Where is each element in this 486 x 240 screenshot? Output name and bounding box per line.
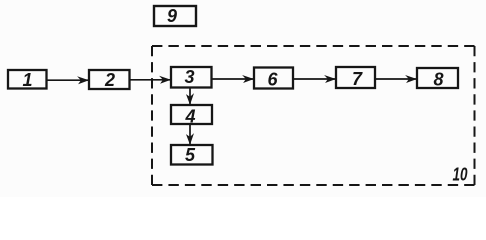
svg-text:1: 1 — [22, 70, 32, 90]
arrow 2 to 3 — [130, 79, 171, 81]
block 2 — [89, 70, 130, 90]
block 5 — [171, 145, 213, 165]
svg-text:5: 5 — [185, 145, 196, 165]
block 7 — [336, 67, 375, 89]
dashed enclosure 10 right edge — [474, 46, 476, 185]
arrow 3 to 6 — [212, 78, 254, 80]
svg-text:2: 2 — [104, 70, 115, 90]
arrow 3 down to 4 — [189, 88, 191, 105]
block 8 — [417, 68, 458, 90]
arrow 4 down to 5 — [189, 124, 191, 145]
svg-text:7: 7 — [352, 69, 363, 89]
dashed enclosure 10 bottom edge — [152, 184, 475, 186]
block 1 — [8, 70, 47, 90]
block 3 — [171, 67, 212, 88]
block 6 — [254, 68, 293, 90]
arrow 7 to 8 — [375, 78, 417, 80]
svg-text:9: 9 — [167, 6, 177, 26]
svg-text:6: 6 — [267, 70, 278, 90]
dashed enclosure 10 left edge — [151, 46, 153, 185]
svg-text:10: 10 — [453, 165, 468, 185]
arrow 1 to 2 — [47, 79, 89, 81]
block 9 — [154, 6, 196, 26]
svg-text:8: 8 — [433, 70, 443, 90]
dashed enclosure 10 top edge — [152, 45, 475, 47]
svg-text:4: 4 — [184, 107, 195, 127]
arrow 6 to 7 — [293, 78, 336, 80]
svg-text:3: 3 — [184, 67, 194, 87]
block 4 — [171, 105, 212, 127]
